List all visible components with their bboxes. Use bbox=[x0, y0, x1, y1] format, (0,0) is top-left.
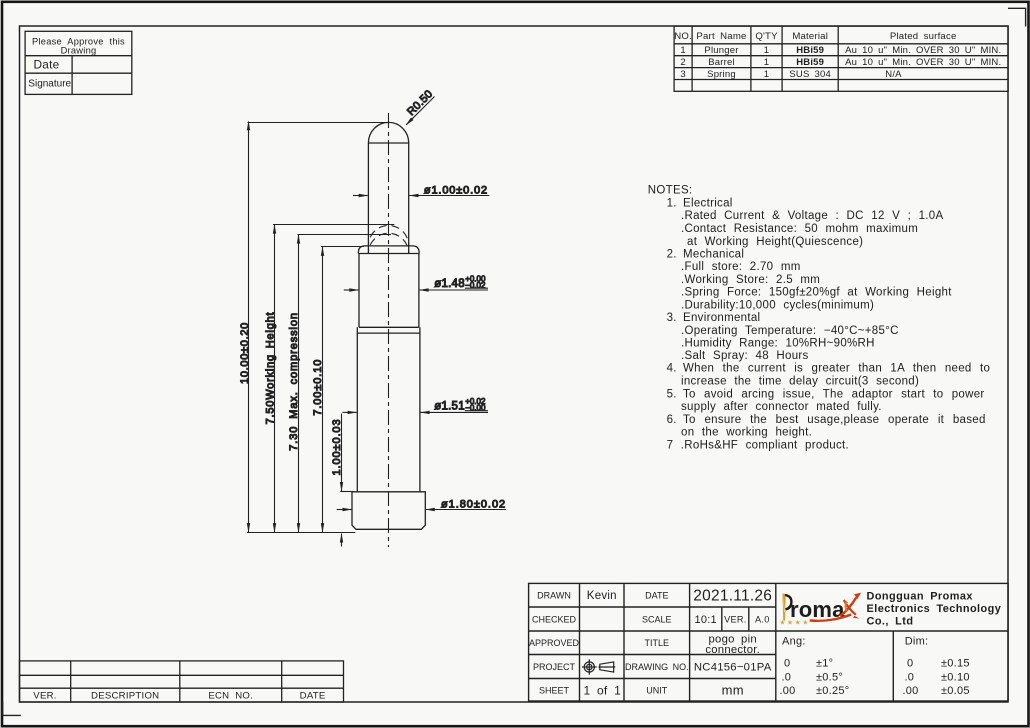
svg-text:10.00±0.20: 10.00±0.20 bbox=[239, 322, 251, 384]
pogo pin centerline bbox=[388, 113, 390, 547]
svg-text:.Salt Spray: 48 Hours: .Salt Spray: 48 Hours bbox=[681, 350, 809, 362]
svg-text:±0.10: ±0.10 bbox=[941, 671, 970, 683]
svg-text:Co., Ltd: Co., Ltd bbox=[867, 615, 914, 627]
svg-text:DESCRIPTION: DESCRIPTION bbox=[91, 691, 159, 702]
svg-text:.Durability:10,000 cycles(mini: .Durability:10,000 cycles(minimum) bbox=[681, 299, 874, 311]
BOM header row bbox=[674, 31, 956, 42]
plunger shaft Ø1.00 bbox=[368, 143, 408, 253]
BOM row 1 Plunger bbox=[680, 45, 1001, 56]
svg-text:3: 3 bbox=[680, 69, 685, 80]
svg-text:SHEET: SHEET bbox=[539, 685, 570, 695]
svg-text:TITLE: TITLE bbox=[645, 638, 670, 648]
svg-text:2: 2 bbox=[680, 57, 685, 68]
svg-text:Au 10 u" Min. OVER 30 U" MIN.: Au 10 u" Min. OVER 30 U" MIN. bbox=[845, 45, 1001, 56]
svg-text:supply after connector mated f: supply after connector mated fully. bbox=[681, 401, 882, 413]
svg-text:To avoid arcing issue, The ada: To avoid arcing issue, The adaptor start… bbox=[683, 389, 985, 401]
tolerance section Ang bbox=[780, 635, 850, 697]
flange Ø1.80 bbox=[352, 492, 425, 530]
svg-text:1: 1 bbox=[764, 69, 769, 80]
svg-text:ø1.00±0.02: ø1.00±0.02 bbox=[424, 184, 488, 196]
svg-text:NC4156−01PA: NC4156−01PA bbox=[694, 661, 772, 673]
dimension Ø1.00±0.02 bbox=[353, 184, 489, 197]
svg-text:increase the time delay circui: increase the time delay circuit(3 second… bbox=[681, 376, 919, 388]
svg-text:N/A: N/A bbox=[885, 69, 902, 80]
corner mark top-right bbox=[1008, 8, 1026, 26]
svg-text:0: 0 bbox=[907, 658, 913, 670]
svg-text:.Contact Resistance: 50 mohm m: .Contact Resistance: 50 mohm maximum bbox=[681, 223, 918, 235]
svg-text:Environmental: Environmental bbox=[683, 312, 760, 324]
svg-text:1.: 1. bbox=[667, 198, 677, 210]
svg-text:Date: Date bbox=[34, 57, 60, 71]
svg-text:Ang:: Ang: bbox=[782, 635, 806, 647]
svg-text:4.: 4. bbox=[667, 363, 677, 375]
notes text bbox=[648, 185, 990, 452]
svg-text:2021.11.26: 2021.11.26 bbox=[693, 588, 772, 605]
title block middle labels bbox=[625, 591, 689, 696]
svg-text:Part Name: Part Name bbox=[696, 31, 746, 42]
svg-text:ø1.51: ø1.51 bbox=[434, 400, 465, 412]
svg-text:±0.15: ±0.15 bbox=[941, 658, 970, 670]
svg-text:±1°: ±1° bbox=[816, 658, 833, 670]
svg-text:A.0: A.0 bbox=[755, 614, 770, 624]
BOM row 2 Barrel bbox=[680, 57, 1001, 68]
plunger head dome R0.50 bbox=[368, 122, 408, 143]
barrel crown bbox=[358, 246, 419, 254]
svg-text:VER.: VER. bbox=[33, 691, 56, 702]
svg-text:Kevin: Kevin bbox=[587, 590, 617, 602]
dimension 1.00±0.03 flange height bbox=[331, 414, 353, 547]
svg-text:Electrical: Electrical bbox=[683, 198, 733, 210]
svg-text:6.: 6. bbox=[667, 414, 677, 426]
svg-text:UNIT: UNIT bbox=[646, 685, 667, 695]
svg-text:Plated surface: Plated surface bbox=[890, 31, 957, 42]
svg-text:.Rated Current & Voltage : DC: .Rated Current & Voltage : DC 12 V ; 1.0… bbox=[681, 210, 943, 222]
dimension Ø1.48 +0.00/-0.02 bbox=[344, 274, 488, 291]
svg-text:ø1.48: ø1.48 bbox=[434, 278, 465, 290]
svg-text:NOTES:: NOTES: bbox=[648, 185, 693, 197]
svg-text:APPROVED: APPROVED bbox=[529, 638, 580, 648]
svg-text:DRAWING NO.: DRAWING NO. bbox=[625, 662, 689, 672]
svg-text:Signature: Signature bbox=[28, 79, 71, 90]
svg-text:VER.: VER. bbox=[724, 614, 746, 624]
svg-text:0: 0 bbox=[784, 658, 790, 670]
svg-text:ø1.80±0.02: ø1.80±0.02 bbox=[441, 499, 506, 511]
svg-text:−0.00: −0.00 bbox=[465, 403, 486, 412]
svg-text:−0.02: −0.02 bbox=[465, 281, 486, 290]
dimension 7.00±0.10 bbox=[312, 246, 364, 532]
company name bbox=[867, 590, 1002, 627]
hidden plunger tip at working height (dashed) bbox=[368, 225, 408, 245]
revision table text bbox=[33, 691, 325, 702]
dimension 7.50 Working Height bbox=[264, 224, 394, 532]
dimension 10.00±0.20 bbox=[239, 121, 389, 533]
Promax logo: red underline swoosh bbox=[810, 614, 851, 622]
corner mark bottom-left bbox=[3, 701, 21, 715]
svg-text:HBi59: HBi59 bbox=[796, 45, 824, 56]
svg-text:1: 1 bbox=[764, 57, 769, 68]
svg-text:Material: Material bbox=[792, 31, 828, 42]
title block values bbox=[584, 588, 773, 698]
svg-text:★★★★: ★★★★ bbox=[780, 618, 811, 626]
svg-text:Drawing: Drawing bbox=[61, 46, 97, 56]
svg-text:1: 1 bbox=[764, 45, 769, 56]
svg-text:ECN NO.: ECN NO. bbox=[208, 691, 253, 702]
hidden plunger tip at max compression (dashed) bbox=[368, 233, 408, 253]
svg-text:SCALE: SCALE bbox=[642, 614, 672, 624]
svg-text:PROJECT: PROJECT bbox=[533, 662, 576, 672]
title block frame bbox=[529, 583, 1009, 701]
svg-text:1 of 1: 1 of 1 bbox=[584, 683, 622, 697]
svg-text:DRAWN: DRAWN bbox=[537, 591, 571, 601]
Promax logo: red phoenix X bbox=[840, 593, 861, 619]
BOM row 3 Spring bbox=[680, 69, 902, 80]
barrel upper section Ø1.48 bbox=[359, 254, 419, 328]
dimension Ø1.80±0.02 bbox=[337, 499, 506, 512]
svg-text:±0.5°: ±0.5° bbox=[816, 671, 843, 683]
title block labels column bbox=[529, 591, 580, 696]
svg-text:.0: .0 bbox=[782, 671, 792, 683]
svg-text:Mechanical: Mechanical bbox=[683, 248, 744, 260]
svg-text:Electronics Technology: Electronics Technology bbox=[867, 603, 1002, 615]
svg-text:NO.: NO. bbox=[674, 31, 692, 42]
svg-text:When the current is greater th: When the current is greater than 1A then… bbox=[683, 363, 990, 375]
svg-text:Barrel: Barrel bbox=[708, 57, 735, 68]
leader R0.50 bbox=[405, 88, 435, 126]
svg-text:.Spring Force: 150gf±20%gf at: .Spring Force: 150gf±20%gf at Working He… bbox=[681, 286, 952, 298]
svg-text:on the working height.: on the working height. bbox=[681, 427, 812, 439]
svg-text:7.00±0.10: 7.00±0.10 bbox=[312, 359, 324, 416]
svg-text:Spring: Spring bbox=[707, 69, 736, 80]
svg-text:DATE: DATE bbox=[300, 691, 326, 702]
svg-text:1.00±0.03: 1.00±0.03 bbox=[331, 419, 343, 476]
Promax logo: gold quill P stem bbox=[783, 594, 786, 621]
svg-text:.00: .00 bbox=[780, 685, 796, 697]
svg-text:7.30 Max. compression: 7.30 Max. compression bbox=[288, 312, 300, 451]
svg-text:Au 10 u" Min. OVER 30 U" MIN.: Au 10 u" Min. OVER 30 U" MIN. bbox=[845, 57, 1001, 68]
svg-text:R0.50: R0.50 bbox=[405, 88, 435, 118]
BOM table frame bbox=[674, 26, 1008, 91]
svg-text:SUS 304: SUS 304 bbox=[789, 69, 831, 80]
approval box frame bbox=[25, 31, 132, 94]
third-angle projection symbol bbox=[582, 659, 615, 674]
svg-text:10:1: 10:1 bbox=[694, 614, 716, 626]
svg-text:at Working Height(Quiescence): at Working Height(Quiescence) bbox=[687, 236, 863, 248]
Promax logo: gold stars bbox=[780, 618, 811, 626]
approval box text bbox=[28, 36, 125, 89]
svg-text:.00: .00 bbox=[903, 685, 919, 697]
svg-text:7.50Working Height: 7.50Working Height bbox=[264, 312, 276, 425]
svg-text:±0.05: ±0.05 bbox=[941, 685, 970, 697]
dimension 7.30 Max. compression bbox=[288, 234, 391, 532]
svg-text:5.: 5. bbox=[667, 389, 677, 401]
svg-text:7 .RoHs&HF compliant product.: 7 .RoHs&HF compliant product. bbox=[667, 440, 849, 452]
svg-text:Q'TY: Q'TY bbox=[755, 31, 778, 42]
tolerance section Dim bbox=[903, 635, 970, 697]
Promax logo: black P bowl and roma text bbox=[785, 595, 845, 622]
revision table frame (bottom left) bbox=[20, 661, 344, 702]
svg-text:CHECKED: CHECKED bbox=[532, 614, 577, 624]
svg-text:To ensure the best usage,pleas: To ensure the best usage,please operate … bbox=[683, 414, 986, 426]
svg-text:3.: 3. bbox=[667, 312, 677, 324]
svg-text:2.: 2. bbox=[667, 248, 677, 260]
svg-text:Dongguan Promax: Dongguan Promax bbox=[867, 590, 973, 602]
svg-text:mm: mm bbox=[722, 682, 744, 697]
barrel lower section Ø1.51 bbox=[357, 327, 420, 492]
svg-text:.Humidity Range: 10%RH~90%RH: .Humidity Range: 10%RH~90%RH bbox=[681, 338, 875, 350]
svg-text:±0.25°: ±0.25° bbox=[816, 685, 849, 697]
svg-text:Plunger: Plunger bbox=[704, 45, 738, 56]
svg-text:connector.: connector. bbox=[705, 644, 760, 656]
svg-text:DATE: DATE bbox=[645, 591, 668, 601]
svg-text:.Working Store: 2.5 mm: .Working Store: 2.5 mm bbox=[681, 274, 820, 286]
svg-text:HBi59: HBi59 bbox=[796, 57, 824, 68]
svg-text:.0: .0 bbox=[905, 671, 915, 683]
svg-text:.Full store: 2.70 mm: .Full store: 2.70 mm bbox=[681, 261, 801, 273]
svg-text:.Operating Temperature: −40°C~: .Operating Temperature: −40°C~+85°C bbox=[681, 325, 899, 337]
svg-text:1: 1 bbox=[680, 45, 685, 56]
extension line bottom datum bbox=[247, 532, 355, 534]
dimension Ø1.51 +0.02/-0.00 bbox=[343, 397, 489, 414]
svg-text:Dim:: Dim: bbox=[905, 635, 929, 647]
